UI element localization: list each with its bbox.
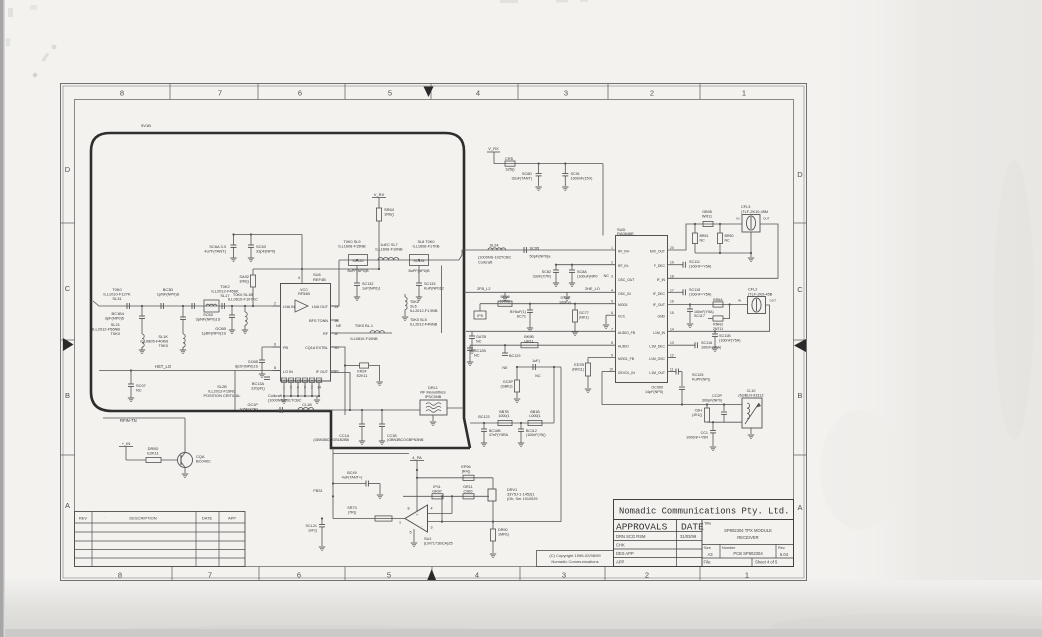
svg-text:ILL2012-F15NC: ILL2012-F15NC xyxy=(208,390,236,394)
svg-text:OC060: OC060 xyxy=(651,386,663,390)
svg-text:RA0848E: RA0848E xyxy=(617,231,634,236)
svg-text:IP5: IP5 xyxy=(477,314,482,318)
svg-text:5: 5 xyxy=(387,571,391,580)
svg-text:SC6D: SC6D xyxy=(522,172,532,176)
svg-text:APP: APP xyxy=(228,516,236,521)
svg-text:1uEC SL7: 1uEC SL7 xyxy=(380,243,398,247)
svg-text:(TLF-2K9-45B: (TLF-2K9-45B xyxy=(748,292,773,296)
svg-text:Sheet 4 of 5: Sheet 4 of 5 xyxy=(755,560,778,565)
svg-text:1R0(): 1R0() xyxy=(239,279,250,284)
svg-text:2: 2 xyxy=(334,370,336,374)
svg-text:10: 10 xyxy=(609,368,613,372)
svg-text:POSITION CRITICAL: POSITION CRITICAL xyxy=(204,394,242,398)
svg-text:220pF(): 220pF() xyxy=(251,387,265,391)
svg-text:2HE_LO: 2HE_LO xyxy=(585,287,600,291)
svg-text:SP902304 TPX MODULE: SP902304 TPX MODULE xyxy=(724,528,772,533)
svg-text:LNA IN: LNA IN xyxy=(283,305,295,309)
svg-text:Rev.: Rev. xyxy=(778,546,785,550)
svg-text:13: 13 xyxy=(670,341,674,345)
svg-text:NC: NC xyxy=(700,238,706,242)
svg-text:CHD: CHD xyxy=(288,380,293,383)
svg-text:D: D xyxy=(65,165,71,174)
svg-text:9: 9 xyxy=(274,343,276,347)
svg-text:1MR1(: 1MR1( xyxy=(498,532,510,536)
svg-text:CFL2: CFL2 xyxy=(748,288,757,292)
svg-text:T0K0 SL5: T0K0 SL5 xyxy=(410,318,427,322)
svg-text:Size: Size xyxy=(704,546,711,550)
svg-text:CL1B: CL1B xyxy=(302,403,312,407)
svg-text:C: C xyxy=(65,284,71,293)
svg-text:C6H: C6H xyxy=(695,409,703,413)
svg-text:SL2B: SL2B xyxy=(217,385,227,389)
svg-text:7: 7 xyxy=(218,89,222,98)
svg-text:KuPF(NP(): KuPF(NP() xyxy=(692,377,711,381)
svg-text:8: 8 xyxy=(120,89,124,98)
svg-text:BuPF(NP0)B: BuPF(NP0)B xyxy=(347,269,369,273)
svg-text:ILL0810-F107KC: ILL0810-F107KC xyxy=(228,297,258,302)
svg-text:BR6A: BR6A xyxy=(713,298,723,302)
svg-text:1000nF+Y5R: 1000nF+Y5R xyxy=(686,435,708,439)
svg-text:SC8A: SC8A xyxy=(577,270,587,274)
svg-text:DRL1: DRL1 xyxy=(428,386,438,390)
svg-text:REF4B: REF4B xyxy=(313,277,326,282)
svg-text:OUT: OUT xyxy=(763,217,770,221)
svg-text:8p2F(NP0)1S: 8p2F(NP0)1S xyxy=(235,364,258,368)
svg-text:D: D xyxy=(797,170,803,179)
svg-text:2: 2 xyxy=(611,261,613,265)
svg-text:5V1B: 5V1B xyxy=(141,123,151,128)
svg-text:3pNF(NP0)1S: 3pNF(NP0)1S xyxy=(196,317,221,322)
svg-text:T0K0: T0K0 xyxy=(111,331,121,336)
svg-text:1uF(: 1uF( xyxy=(532,359,540,363)
svg-text:DRV1: DRV1 xyxy=(507,488,517,492)
svg-text:T0K0 BL.1: T0K0 BL.1 xyxy=(355,324,373,328)
svg-text:ILL1608-F17KB: ILL1608-F17KB xyxy=(413,244,440,248)
svg-text:APPROVALS: APPROVALS xyxy=(616,522,668,533)
svg-text:IPSC0NB: IPSC0NB xyxy=(425,395,442,399)
svg-text:2N711: 2N711 xyxy=(713,327,723,331)
svg-text:SC117: SC117 xyxy=(694,314,705,318)
svg-text:ILL2012-F1.9NB: ILL2012-F1.9NB xyxy=(410,309,438,313)
svg-text:RFIN-TN: RFIN-TN xyxy=(120,418,137,423)
svg-text:33nF(X7R): 33nF(X7R) xyxy=(533,274,552,278)
svg-text:MIX_OUT: MIX_OUT xyxy=(650,250,665,254)
svg-text:(GBN3BCOGBPN3NB: (GBN3BCOGBPN3NB xyxy=(387,438,424,442)
svg-text:DRN SCG RSM: DRN SCG RSM xyxy=(616,534,646,539)
svg-text:CR5: CR5 xyxy=(505,156,514,161)
svg-text:CHD: CHD xyxy=(309,380,314,383)
svg-text:(TLF-2K10-45M: (TLF-2K10-45M xyxy=(741,210,768,214)
svg-text:UR11: UR11 xyxy=(524,339,533,343)
svg-text:T0K0: T0K0 xyxy=(159,343,169,348)
svg-text:LNA OUT: LNA OUT xyxy=(312,305,329,309)
svg-text:1000nF(15V): 1000nF(15V) xyxy=(571,176,594,180)
svg-text:1n5F(X7R): 1n5F(X7R) xyxy=(239,407,259,411)
svg-text:B: B xyxy=(797,391,802,400)
svg-text:E2K11: E2K11 xyxy=(147,451,159,456)
svg-text:IF_OUT: IF_OUT xyxy=(653,303,665,307)
svg-text:MOD1: MOD1 xyxy=(618,303,628,307)
svg-text:IF OUT: IF OUT xyxy=(316,370,329,374)
svg-text:8: 8 xyxy=(274,366,276,370)
svg-text:SC91: SC91 xyxy=(571,172,580,176)
svg-text:NE: NE xyxy=(336,324,342,328)
svg-text:PB: PB xyxy=(283,346,289,350)
svg-text:4u7F(TANT(: 4u7F(TANT( xyxy=(204,249,226,254)
svg-text:GC1P: GC1P xyxy=(248,403,259,407)
svg-text:L000(1: L000(1 xyxy=(529,414,540,418)
svg-text:OSC_OUT: OSC_OUT xyxy=(618,278,634,282)
svg-text:(100uF)NP0: (100uF)NP0 xyxy=(577,274,597,278)
svg-text:2: 2 xyxy=(274,302,276,306)
svg-text:BC123: BC123 xyxy=(478,415,489,419)
svg-text:CHD: CHD xyxy=(281,380,286,383)
svg-text:33uF(TANT(: 33uF(TANT( xyxy=(511,176,532,180)
svg-text:4: 4 xyxy=(611,288,613,292)
svg-text:B: B xyxy=(65,391,70,400)
svg-text:8: 8 xyxy=(611,341,613,345)
svg-text:100Kv): 100Kv) xyxy=(559,300,572,304)
svg-text:(1000NS-102TCBC: (1000NS-102TCBC xyxy=(478,256,512,260)
svg-text:1000(): 1000() xyxy=(500,299,512,303)
svg-text:HST_LO: HST_LO xyxy=(155,364,172,369)
svg-text:CC1: CC1 xyxy=(701,431,708,435)
svg-text:L1M_IN: L1M_IN xyxy=(653,331,665,335)
svg-text:RECEIVER: RECEIVER xyxy=(737,535,758,540)
svg-text:3: 3 xyxy=(430,526,432,530)
svg-text:DESCRIPTION: DESCRIPTION xyxy=(129,516,156,521)
svg-text:V_RX: V_RX xyxy=(374,192,385,197)
svg-text:14: 14 xyxy=(670,327,674,331)
svg-text:2FB_L2: 2FB_L2 xyxy=(477,287,490,291)
svg-text:NC: NC xyxy=(535,374,541,378)
svg-text:VCC: VCC xyxy=(618,315,626,319)
svg-text:GND: GND xyxy=(657,315,665,319)
svg-text:RF_IN+: RF_IN+ xyxy=(618,250,630,254)
svg-text:5: 5 xyxy=(409,531,411,535)
svg-text:RF: RF xyxy=(323,332,329,336)
svg-text:(GBN3BCOGB1B2BB: (GBN3BCOGB1B2BB xyxy=(313,438,349,442)
svg-text:A3: A3 xyxy=(707,552,713,557)
svg-text:SC82: SC82 xyxy=(542,270,551,274)
svg-text:OUT: OUT xyxy=(770,299,777,303)
svg-text:WR11: WR11 xyxy=(702,215,712,219)
svg-text:7: 7 xyxy=(611,327,613,331)
svg-text:ILL1608-F15NB: ILL1608-F15NB xyxy=(338,244,366,248)
svg-text:A: A xyxy=(65,501,70,510)
svg-text:Number: Number xyxy=(722,546,736,550)
svg-text:3: 3 xyxy=(562,571,566,580)
svg-text:IF_DEC: IF_DEC xyxy=(653,292,666,296)
svg-text:6: 6 xyxy=(298,89,302,98)
svg-text:(C) Copyright 1996-02/98/99: (C) Copyright 1996-02/98/99 xyxy=(549,553,601,558)
svg-text:ILL2012-F4NNB: ILL2012-F4NNB xyxy=(410,322,438,326)
svg-text:(100nF+Y5A): (100nF+Y5A) xyxy=(689,292,712,296)
svg-text:18: 18 xyxy=(670,274,674,278)
svg-text:E2K11: E2K11 xyxy=(357,374,368,378)
svg-text:BR61: BR61 xyxy=(700,234,709,238)
svg-text:2: 2 xyxy=(650,89,654,98)
svg-text:6: 6 xyxy=(611,311,613,315)
svg-text:ILL1608-F10NB: ILL1608-F10NB xyxy=(375,247,403,251)
svg-text:BC040C: BC040C xyxy=(196,459,211,464)
svg-text:CFL3: CFL3 xyxy=(741,205,750,209)
svg-text:(NR11): (NR11) xyxy=(572,367,585,371)
svg-text:(Ob, Ser 1910029: (Ob, Ser 1910029 xyxy=(507,497,538,501)
svg-text:(7R(): (7R() xyxy=(348,510,357,514)
svg-text:L1M_OSC: L1M_OSC xyxy=(649,357,665,361)
svg-text:1B: 1B xyxy=(334,319,339,323)
svg-text:A: A xyxy=(797,503,802,512)
svg-text:3: 3 xyxy=(564,89,568,98)
svg-text:31/03/99: 31/03/99 xyxy=(680,534,697,539)
svg-text:ILL0810-F10NB: ILL0810-F10NB xyxy=(350,337,378,341)
svg-text:4: 4 xyxy=(475,571,479,580)
svg-text:NC: NC xyxy=(474,353,480,357)
svg-text:NC: NC xyxy=(725,238,731,242)
svg-text:8: 8 xyxy=(407,507,409,511)
svg-text:SL24: SL24 xyxy=(490,244,500,248)
svg-text:11: 11 xyxy=(670,368,674,372)
svg-text:L1M_DEC: L1M_DEC xyxy=(649,345,665,349)
svg-text:IF_IN: IF_IN xyxy=(657,278,666,282)
svg-text:F_DEC: F_DEC xyxy=(654,264,666,268)
svg-text:AUDIO_FB: AUDIO_FB xyxy=(618,331,636,335)
svg-text:4: 4 xyxy=(476,89,480,98)
svg-text:T0K0: T0K0 xyxy=(410,300,419,304)
svg-text:DATE: DATE xyxy=(202,516,213,521)
svg-text:5.04: 5.04 xyxy=(780,552,789,557)
svg-text:CQ1A EXTBL: CQ1A EXTBL xyxy=(305,346,328,350)
svg-text:BC129: BC129 xyxy=(509,354,520,358)
svg-text:DEVOL_IN: DEVOL_IN xyxy=(618,371,635,375)
svg-text:GB95: GB95 xyxy=(702,210,712,214)
svg-text:SU1: SU1 xyxy=(424,537,431,541)
svg-text:4uF(TANT+(: 4uF(TANT+( xyxy=(342,475,363,479)
svg-text:CHD: CHD xyxy=(302,380,307,383)
svg-text:SC71: SC71 xyxy=(517,314,526,318)
svg-text:KuP(NP012: KuP(NP012 xyxy=(424,286,444,290)
svg-text:BFS TONN: BFS TONN xyxy=(309,319,328,323)
svg-text:325(): 325() xyxy=(505,167,515,172)
svg-text:NC: NC xyxy=(604,274,610,278)
svg-text:LO IN: LO IN xyxy=(283,370,293,374)
svg-text:File:: File: xyxy=(704,560,712,565)
svg-text:(NK1): (NK1) xyxy=(579,315,590,319)
svg-text:(GBK(1: (GBK(1 xyxy=(500,384,513,388)
svg-text:(JK1(): (JK1() xyxy=(692,413,702,417)
svg-text:(1000NS-P31TCBC: (1000NS-P31TCBC xyxy=(268,399,302,403)
svg-text:DATE: DATE xyxy=(681,522,704,533)
svg-text:KR24: KR24 xyxy=(357,370,366,374)
svg-text:1nF(): 1nF() xyxy=(308,528,318,532)
svg-text:2: 2 xyxy=(645,571,649,580)
svg-text:12: 12 xyxy=(670,354,674,358)
svg-text:·: · xyxy=(103,515,104,520)
svg-text:AUDIO: AUDIO xyxy=(618,345,629,349)
svg-text:NC: NC xyxy=(136,388,142,393)
svg-text:47nF(Y5RA: 47nF(Y5RA xyxy=(489,433,509,437)
svg-text:7: 7 xyxy=(208,571,212,580)
svg-text:MOD1_FB: MOD1_FB xyxy=(618,357,635,361)
svg-text:Coilcraft.: Coilcraft. xyxy=(478,261,493,265)
svg-text:PCB SP902304: PCB SP902304 xyxy=(733,551,763,556)
svg-text:FB31: FB31 xyxy=(313,489,322,493)
svg-text:NE: NE xyxy=(502,366,508,370)
svg-text:RNN3: RNN3 xyxy=(713,323,723,327)
svg-text:APP: APP xyxy=(616,560,625,565)
svg-text:9: 9 xyxy=(611,354,613,358)
svg-text:CHK: CHK xyxy=(616,543,625,548)
svg-text:Nomadic Communications Pty. Lt: Nomadic Communications Pty. Ltd. xyxy=(619,507,789,517)
svg-text:SL8 T0K0: SL8 T0K0 xyxy=(417,240,434,244)
svg-text:20: 20 xyxy=(670,246,674,250)
svg-text:5: 5 xyxy=(611,300,613,304)
svg-text:(LM7171BCA)25: (LM7171BCA)25 xyxy=(424,542,453,546)
svg-text:17: 17 xyxy=(670,288,674,292)
svg-text:[R4(): [R4() xyxy=(462,469,471,473)
svg-text:19: 19 xyxy=(670,261,674,265)
svg-text:GR97: GR97 xyxy=(432,489,442,493)
svg-text:C: C xyxy=(797,285,803,294)
svg-text:1pBF(NP0)1S: 1pBF(NP0)1S xyxy=(201,331,226,336)
svg-text:(100nF(Y5A): (100nF(Y5A) xyxy=(719,338,741,342)
svg-text:BC13A: BC13A xyxy=(252,382,265,386)
svg-text:Nomadic Communications: Nomadic Communications xyxy=(551,559,598,564)
svg-text:50pF(NP0)a: 50pF(NP0)a xyxy=(530,255,552,259)
svg-text:V_RX: V_RX xyxy=(488,146,499,151)
svg-text:1: 1 xyxy=(745,571,749,580)
svg-text:C900: C900 xyxy=(464,489,473,493)
svg-text:1R0(): 1R0() xyxy=(384,212,395,217)
svg-text:OSC_IN: OSC_IN xyxy=(618,292,631,296)
svg-text:RF54B: RF54B xyxy=(298,292,310,296)
svg-text:14pF(NP0): 14pF(NP0) xyxy=(645,390,663,394)
svg-text:BR60: BR60 xyxy=(725,234,734,238)
svg-text:8: 8 xyxy=(118,571,122,580)
svg-text:NC: NC xyxy=(476,339,482,343)
svg-text:3: 3 xyxy=(611,274,613,278)
svg-text:CC2P: CC2P xyxy=(712,394,722,398)
svg-text:SC95: SC95 xyxy=(530,247,540,251)
svg-text:RF_IN-: RF_IN- xyxy=(618,264,629,268)
svg-text:Title: Title xyxy=(704,521,712,526)
svg-text:L1M_OUT: L1M_OUT xyxy=(649,371,665,375)
svg-text:6: 6 xyxy=(297,571,301,580)
svg-text:RF Monolithics: RF Monolithics xyxy=(420,390,445,394)
svg-text:(100nF(Y5(): (100nF(Y5() xyxy=(526,433,546,437)
svg-text:DES APP: DES APP xyxy=(616,551,634,556)
svg-text:(100nF+Y5A): (100nF+Y5A) xyxy=(689,264,712,268)
svg-text:Coilcraft: Coilcraft xyxy=(268,394,283,398)
svg-text:+_IN: +_IN xyxy=(122,441,131,446)
svg-text:IN: IN xyxy=(738,299,741,303)
svg-text:IN: IN xyxy=(736,217,739,221)
svg-text:1uP(NP0)1: 1uP(NP0)1 xyxy=(362,286,381,290)
svg-text:SL6: SL6 xyxy=(410,305,417,309)
svg-text:5: 5 xyxy=(388,89,392,98)
svg-text:REV: REV xyxy=(79,516,88,521)
svg-text:15: 15 xyxy=(670,311,674,315)
svg-text:4: 4 xyxy=(430,507,432,511)
svg-text:(63/BLN-9331Z: (63/BLN-9331Z xyxy=(738,393,764,397)
svg-text:3pF(NP0)5: 3pF(NP0)5 xyxy=(105,316,125,321)
svg-text:CHD: CHD xyxy=(316,380,321,383)
svg-text:SL31: SL31 xyxy=(112,296,121,301)
svg-text:1: 1 xyxy=(742,89,746,98)
svg-text:CHD: CHD xyxy=(295,380,300,383)
svg-text:4_PA: 4_PA xyxy=(412,455,422,460)
svg-text:1: 1 xyxy=(399,521,401,525)
svg-text:300pF(NP0): 300pF(NP0) xyxy=(702,398,722,402)
svg-text:T0K0 SL9: T0K0 SL9 xyxy=(343,240,360,244)
svg-text:1: 1 xyxy=(611,246,613,250)
svg-text:100nF(Y5A): 100nF(Y5A) xyxy=(701,345,722,349)
svg-text:1000(1: 1000(1 xyxy=(498,414,509,418)
svg-text:33pF(NP0): 33pF(NP0) xyxy=(256,249,276,254)
svg-text:1pNF(NP0)S: 1pNF(NP0)S xyxy=(157,292,180,297)
svg-text:33Y5J-1-1452(1: 33Y5J-1-1452(1 xyxy=(507,493,535,497)
svg-text:16: 16 xyxy=(670,300,674,304)
